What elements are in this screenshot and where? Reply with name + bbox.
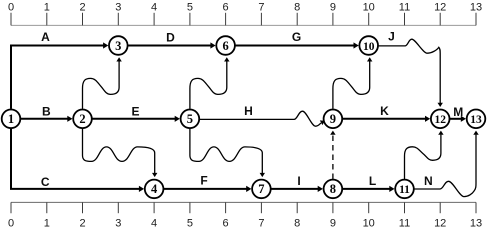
svg-text:10: 10: [363, 1, 375, 13]
svg-text:C: C: [41, 175, 50, 189]
svg-text:4: 4: [151, 218, 157, 230]
node 12: [431, 110, 450, 129]
activity C: drop from node 1 and arrow into node 4: [11, 129, 144, 192]
svg-text:2: 2: [79, 218, 85, 230]
svg-text:3: 3: [115, 218, 121, 230]
activity A: riser from node 1 and arrow into node 3: [11, 30, 108, 109]
float squiggle from node 9 up to node 10: [333, 57, 373, 109]
svg-text:8: 8: [330, 182, 336, 196]
node 6: [216, 36, 235, 55]
svg-text:J: J: [388, 30, 395, 44]
svg-text:6: 6: [223, 1, 229, 13]
svg-text:12: 12: [434, 1, 446, 13]
activity B: node 1 to node 2: [21, 105, 73, 122]
svg-text:M: M: [453, 105, 463, 119]
float wave from node 5 down to node 7: [190, 129, 265, 177]
svg-text:11: 11: [399, 184, 410, 196]
node 3: [109, 36, 128, 55]
top ruler: [8, 1, 482, 25]
svg-text:N: N: [424, 174, 433, 188]
svg-text:I: I: [297, 174, 300, 188]
node 5: [181, 110, 200, 129]
svg-text:13: 13: [470, 114, 482, 126]
activity G: node 6 to node 10: [235, 30, 359, 49]
svg-text:6: 6: [223, 218, 229, 230]
svg-text:0: 0: [8, 1, 14, 13]
float squiggle from node 2 up to node 3: [83, 57, 122, 109]
svg-text:10: 10: [363, 41, 375, 53]
activity N: node 11 to node 13 with float wave: [414, 131, 479, 197]
node 7: [252, 180, 271, 199]
svg-text:7: 7: [258, 1, 264, 13]
svg-text:G: G: [292, 30, 301, 44]
svg-text:A: A: [41, 30, 50, 44]
activity M: node 12 to node 13: [450, 105, 466, 122]
node 4: [145, 180, 164, 199]
float squiggle from node 11 up to node 12: [405, 131, 444, 179]
activity E: node 2 to node 5: [92, 105, 180, 122]
svg-text:F: F: [200, 174, 207, 188]
svg-text:6: 6: [222, 39, 228, 53]
svg-text:9: 9: [330, 218, 336, 230]
svg-text:5: 5: [187, 1, 193, 13]
svg-text:12: 12: [434, 218, 446, 230]
svg-text:5: 5: [187, 112, 193, 126]
svg-text:1: 1: [44, 218, 50, 230]
svg-text:1: 1: [44, 1, 50, 13]
svg-text:12: 12: [434, 114, 446, 126]
svg-text:B: B: [42, 105, 51, 119]
activity D: node 3 to node 6: [128, 30, 216, 48]
svg-text:13: 13: [470, 218, 482, 230]
svg-text:0: 0: [8, 218, 14, 230]
svg-text:3: 3: [115, 1, 121, 13]
node 2: [73, 110, 92, 129]
svg-text:8: 8: [294, 1, 300, 13]
float squiggle from node 5 up to node 6: [190, 57, 230, 109]
svg-text:4: 4: [151, 182, 158, 196]
node 11: [395, 180, 414, 199]
dummy activity (dashed) from node 8 up to node 9: [330, 131, 335, 179]
svg-text:7: 7: [258, 182, 264, 196]
svg-text:10: 10: [363, 218, 375, 230]
svg-text:2: 2: [79, 1, 85, 13]
svg-text:K: K: [380, 104, 389, 118]
svg-text:11: 11: [399, 1, 410, 13]
bottom ruler: [8, 202, 482, 229]
svg-text:4: 4: [151, 1, 157, 13]
node 13: [467, 110, 486, 129]
activity H: node 5 to node 9 with float wave: [200, 104, 327, 126]
svg-text:8: 8: [294, 218, 300, 230]
node 1: [2, 110, 21, 129]
svg-text:7: 7: [258, 218, 264, 230]
activity I: node 7 to node 8: [271, 174, 323, 192]
svg-text:2: 2: [79, 112, 85, 126]
svg-text:9: 9: [330, 112, 336, 126]
svg-text:L: L: [369, 174, 376, 188]
activity J: node 10 to node 12 with float wave: [378, 30, 443, 107]
svg-text:9: 9: [330, 1, 336, 13]
svg-text:E: E: [131, 105, 139, 119]
activity F: node 4 to node 7: [164, 174, 252, 192]
activity L: node 8 to node 11: [343, 174, 395, 192]
svg-text:5: 5: [187, 218, 193, 230]
svg-text:11: 11: [399, 218, 410, 230]
svg-text:13: 13: [470, 1, 482, 13]
node 10: [359, 36, 378, 55]
float wave from node 2 down to node 4: [83, 129, 158, 177]
svg-text:D: D: [166, 30, 175, 44]
svg-text:1: 1: [8, 112, 14, 126]
node 9: [324, 110, 343, 129]
activity K: node 9 to node 12: [343, 104, 431, 122]
svg-text:H: H: [244, 104, 253, 118]
svg-text:3: 3: [115, 39, 121, 53]
node 8: [324, 180, 343, 199]
